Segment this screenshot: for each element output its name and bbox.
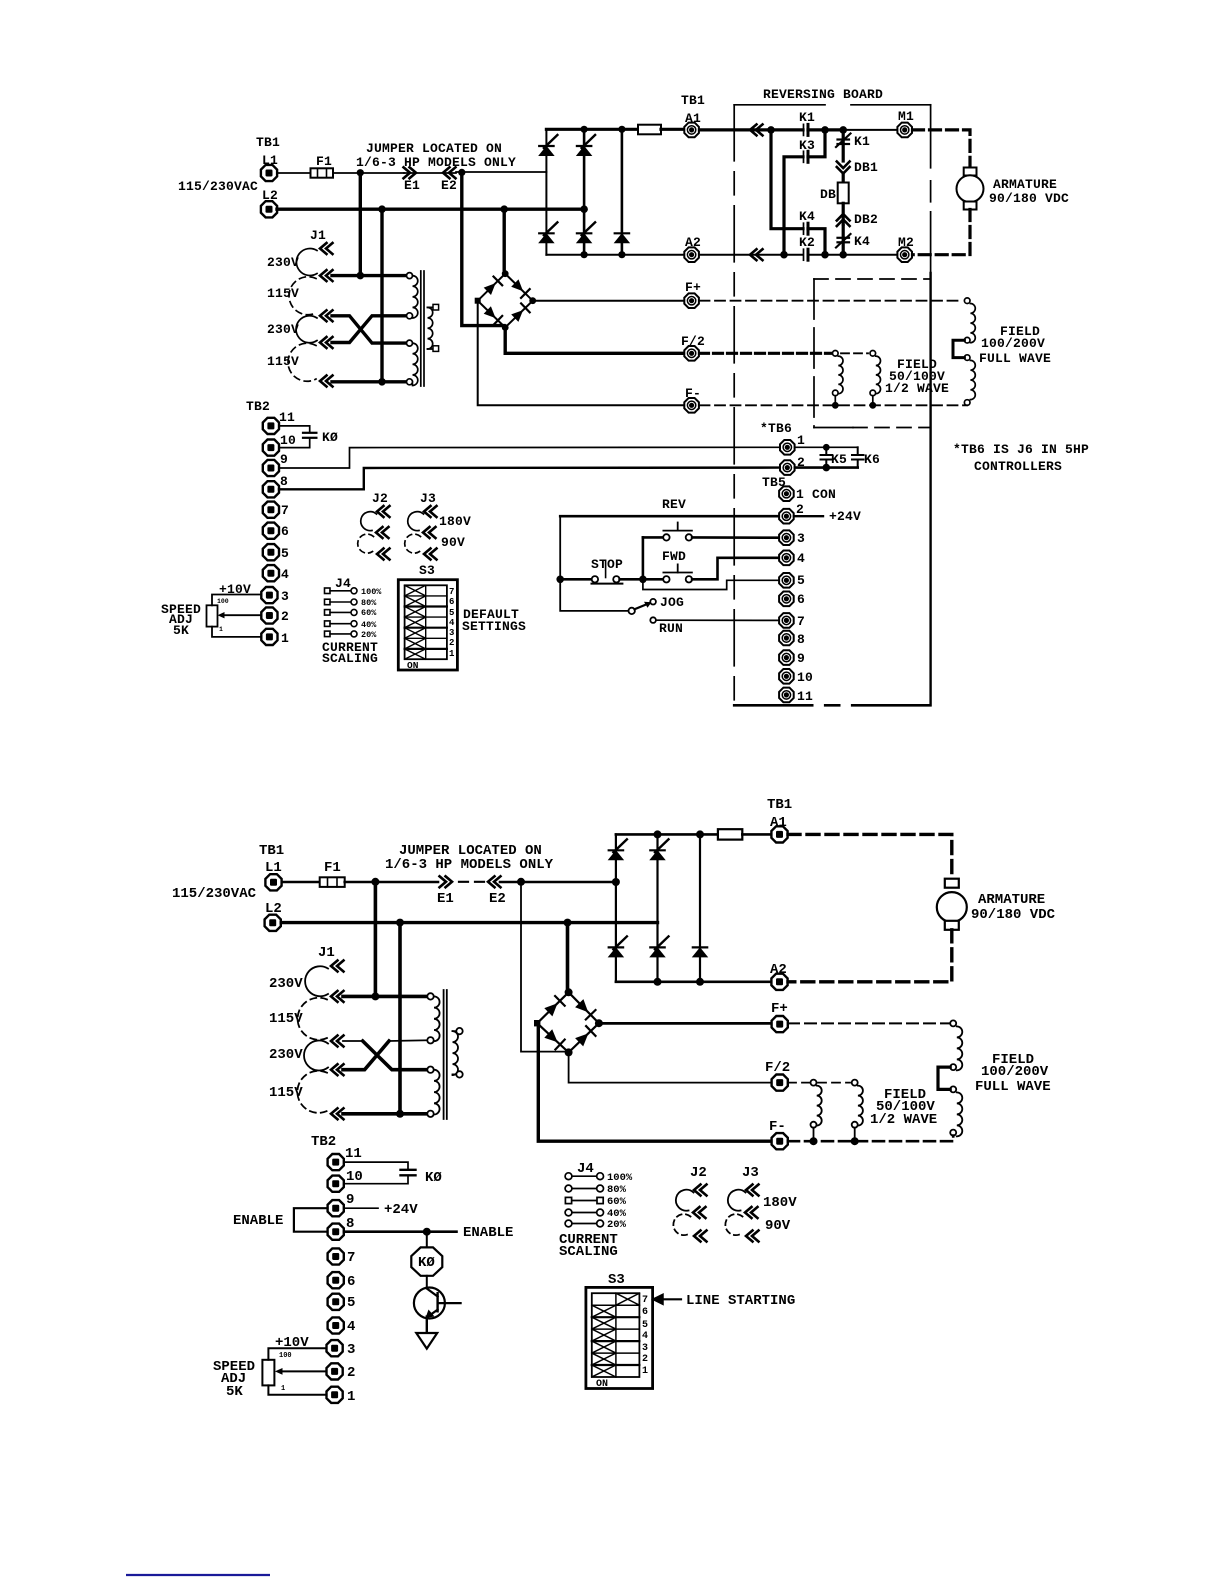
svg-text:115V: 115V bbox=[267, 286, 299, 301]
wire L2 junction down to field bridge top bbox=[503, 209, 506, 274]
svg-text:90/180 VDC: 90/180 VDC bbox=[971, 907, 1056, 923]
junction node on J1-5 wire bbox=[396, 1110, 404, 1118]
junction node K5 bottom bbox=[823, 464, 831, 472]
svg-text:JOG: JOG bbox=[660, 595, 684, 610]
wire F/2 dashed to 50/100V coils bbox=[788, 1082, 810, 1084]
field bridge diode lower-right bbox=[575, 1033, 588, 1046]
terminal TB2-7 bbox=[328, 1248, 344, 1264]
svg-text:ENABLE: ENABLE bbox=[233, 1213, 283, 1229]
svg-text:180V: 180V bbox=[439, 514, 471, 529]
svg-text:4: 4 bbox=[797, 551, 805, 566]
svg-text:80%: 80% bbox=[607, 1184, 627, 1196]
svg-text:E2: E2 bbox=[489, 891, 506, 907]
SCR bridge top bus bbox=[616, 833, 718, 836]
J1 arc 230V top bbox=[296, 249, 317, 276]
terminal TB2-11 bbox=[328, 1154, 344, 1170]
svg-text:TB2: TB2 bbox=[246, 399, 270, 414]
svg-text:FWD: FWD bbox=[662, 549, 686, 564]
wire pot bottom to TB2-1 bbox=[212, 627, 261, 637]
J1 arc 115V bottom (dashed) bbox=[288, 343, 316, 381]
svg-text:ENABLE: ENABLE bbox=[463, 1225, 513, 1241]
J1 arc 230V bottom bbox=[296, 316, 317, 343]
contact K5 bbox=[821, 447, 833, 467]
junction nodes on bridge bottom bus bbox=[581, 251, 588, 258]
junction node field bridge top bbox=[502, 270, 509, 277]
wire E2 junction down to field bridge bottom bbox=[521, 882, 567, 1052]
svg-text:8: 8 bbox=[797, 632, 805, 647]
svg-text:J2: J2 bbox=[372, 491, 388, 506]
J1 chevron 1 bbox=[331, 961, 344, 972]
fuse on A1 bus bbox=[638, 125, 661, 135]
svg-text:230V: 230V bbox=[269, 976, 303, 992]
field section dashed partition bbox=[814, 278, 931, 280]
field coil 100/200V full wave bbox=[964, 298, 975, 405]
J1 arc 230V top bbox=[305, 966, 328, 996]
svg-text:TB1: TB1 bbox=[256, 135, 280, 150]
junction node on L2 bus bbox=[396, 919, 404, 927]
svg-text:100/200V: 100/200V bbox=[981, 1064, 1049, 1080]
wire K0 to transistor bbox=[426, 1276, 428, 1289]
J1 chevron 4 bbox=[331, 1064, 344, 1075]
terminal TB5-7 bbox=[779, 613, 794, 628]
svg-text:5: 5 bbox=[449, 608, 454, 618]
transformer T1 core bbox=[443, 990, 445, 1119]
svg-text:6: 6 bbox=[449, 597, 454, 607]
SCR bridge top bus bbox=[546, 128, 638, 131]
svg-text:180V: 180V bbox=[763, 1195, 797, 1211]
svg-text:J3: J3 bbox=[742, 1165, 759, 1181]
motor armature bbox=[964, 168, 977, 176]
junction node A (771,130) bbox=[767, 126, 775, 134]
svg-text:1/6-3 HP MODELS ONLY: 1/6-3 HP MODELS ONLY bbox=[356, 155, 516, 170]
wire pot wiper to TB2-2 bbox=[282, 1370, 326, 1372]
svg-text:7: 7 bbox=[281, 503, 289, 518]
arrow LINE STARTING bbox=[653, 1294, 666, 1304]
J1 chevron 3 bbox=[331, 1036, 344, 1047]
transformer T1 primary winding bbox=[407, 273, 418, 386]
wire DB1 to DB resistor bbox=[842, 173, 845, 183]
junction nodes on M2 bus bbox=[780, 251, 788, 259]
junction node on L1 wire bbox=[371, 878, 379, 886]
svg-text:ARMATURE: ARMATURE bbox=[993, 177, 1057, 192]
svg-text:5K: 5K bbox=[226, 1384, 243, 1400]
svg-text:115/230VAC: 115/230VAC bbox=[178, 179, 258, 194]
SCR bridge right leg bbox=[699, 834, 701, 981]
SCR bottom-left bbox=[539, 222, 557, 243]
J1 chevron 1 bbox=[320, 243, 333, 254]
svg-text:+24V: +24V bbox=[384, 1202, 418, 1218]
wire ENABLE from TB2-8 bbox=[344, 1230, 457, 1233]
contact K4 (NC, DB branch) bbox=[842, 226, 845, 255]
wire field bridge left to F- bbox=[537, 1023, 771, 1141]
wire J1-3 crossover to primary mid2 bbox=[343, 1040, 363, 1042]
switch FWD bbox=[643, 578, 663, 581]
terminal TB2-1 bbox=[261, 629, 277, 645]
svg-text:3: 3 bbox=[281, 589, 289, 604]
svg-text:1 CON: 1 CON bbox=[796, 487, 836, 502]
svg-text:6: 6 bbox=[797, 592, 805, 607]
wire E2 to bridge left leg bbox=[500, 881, 616, 884]
jumper E2 bbox=[488, 876, 501, 887]
wire L1 to F1 bbox=[282, 881, 320, 884]
svg-text:5: 5 bbox=[797, 573, 805, 588]
svg-text:5: 5 bbox=[347, 1295, 355, 1311]
svg-text:5K: 5K bbox=[173, 623, 189, 638]
junction node B (825,130) bbox=[821, 126, 829, 134]
svg-text:2: 2 bbox=[449, 638, 454, 648]
svg-text:10: 10 bbox=[280, 433, 296, 448]
wire field bridge bottom to F/2 bbox=[569, 1052, 771, 1082]
svg-text:60%: 60% bbox=[607, 1196, 627, 1208]
wire pot top to TB2-3 bbox=[212, 595, 261, 606]
svg-text:K4: K4 bbox=[854, 234, 870, 249]
svg-text:1: 1 bbox=[281, 631, 289, 646]
junction node E2 wire to left leg bbox=[612, 878, 620, 886]
J1 chevron 4 bbox=[320, 337, 333, 348]
terminal TB5-8 bbox=[779, 631, 794, 646]
chevron on A1 line bbox=[750, 124, 763, 135]
J1 arc 115V top (dashed) bbox=[289, 277, 316, 315]
SCR bottom-mid bbox=[650, 936, 668, 957]
dashed link between 50/100V coils bbox=[841, 352, 868, 354]
field coil 50/100V half wave (right) bbox=[852, 1080, 863, 1142]
wire junction up to REV bbox=[642, 537, 645, 579]
wire A1 to board (chevron) bbox=[700, 128, 771, 131]
svg-text:1/2 WAVE: 1/2 WAVE bbox=[870, 1112, 937, 1128]
relay coil K0 bbox=[426, 1232, 428, 1247]
wire RUN to TB5-7 bbox=[656, 619, 779, 621]
wire M1 to armature (dashed) bbox=[913, 130, 971, 168]
svg-text:FULL WAVE: FULL WAVE bbox=[979, 351, 1051, 366]
svg-text:S3: S3 bbox=[419, 563, 435, 578]
svg-text:1: 1 bbox=[347, 1389, 355, 1405]
svg-text:9: 9 bbox=[280, 452, 288, 467]
junction node field bridge top bbox=[565, 988, 573, 996]
terminal TB2-8 bbox=[328, 1224, 344, 1240]
J1 arc 115V bottom (dashed) bbox=[297, 1071, 327, 1113]
svg-text:E1: E1 bbox=[404, 178, 420, 193]
svg-text:ON: ON bbox=[596, 1379, 608, 1390]
ground bbox=[416, 1333, 437, 1349]
svg-text:80%: 80% bbox=[361, 598, 377, 608]
svg-text:6: 6 bbox=[642, 1307, 648, 1318]
svg-text:100/200V: 100/200V bbox=[981, 336, 1045, 351]
svg-text:4: 4 bbox=[281, 567, 289, 582]
SCR bridge left leg bbox=[615, 834, 617, 981]
terminal TB2-6 bbox=[263, 523, 279, 539]
junction node coil right on F- bbox=[851, 1137, 859, 1145]
svg-text:115V: 115V bbox=[269, 1011, 303, 1027]
svg-text:F+: F+ bbox=[771, 1001, 788, 1017]
wire F1 to E1 bbox=[333, 172, 404, 174]
svg-text:1: 1 bbox=[642, 1366, 648, 1377]
junction node field bridge left bbox=[475, 298, 481, 304]
svg-text:1: 1 bbox=[281, 1385, 285, 1393]
motor armature bbox=[945, 879, 959, 888]
svg-text:11: 11 bbox=[345, 1146, 362, 1162]
junction node K5 top bbox=[823, 444, 830, 451]
svg-text:TB1: TB1 bbox=[681, 93, 705, 108]
terminal TB2-5 bbox=[328, 1294, 344, 1310]
svg-text:4: 4 bbox=[642, 1331, 648, 1342]
svg-text:K6: K6 bbox=[864, 452, 880, 467]
svg-text:3: 3 bbox=[347, 1342, 355, 1358]
junction node L2 bus to mid leg bbox=[580, 205, 588, 213]
svg-text:7: 7 bbox=[347, 1250, 355, 1266]
svg-text:J4: J4 bbox=[335, 576, 351, 591]
wire A1 to armature (dashed) bbox=[788, 834, 952, 878]
terminal TB5-6 bbox=[779, 592, 794, 607]
wire fuse to A1 bbox=[742, 833, 771, 836]
wire L2 junction down to field bridge top bbox=[566, 923, 570, 993]
field coil 50/100V half wave (right) bbox=[870, 351, 881, 406]
field bridge diamond bbox=[478, 274, 533, 328]
svg-text:J3: J3 bbox=[420, 491, 436, 506]
transformer T1 secondary winding bbox=[453, 1028, 463, 1078]
jumper E1 bbox=[440, 876, 453, 887]
SCR bottom-left bbox=[609, 936, 627, 957]
wire L2 bus bbox=[281, 921, 657, 924]
svg-text:J4: J4 bbox=[577, 1161, 594, 1177]
svg-text:90/180 VDC: 90/180 VDC bbox=[989, 191, 1069, 206]
svg-text:115V: 115V bbox=[269, 1085, 303, 1101]
svg-text:TB2: TB2 bbox=[311, 1134, 336, 1150]
svg-text:RUN: RUN bbox=[659, 621, 683, 636]
wire armature to A2 (dashed) bbox=[788, 930, 952, 982]
wire FWD to TB5-4 bbox=[692, 558, 778, 580]
svg-text:ON: ON bbox=[407, 660, 419, 671]
SCR bridge left leg bbox=[545, 129, 547, 254]
svg-text:1: 1 bbox=[797, 433, 805, 448]
field bridge diode upper-right bbox=[575, 999, 588, 1012]
junction node coil left on F- bbox=[832, 402, 839, 409]
wire F- dashed to field coil bottom bbox=[700, 404, 968, 406]
diode DB1 (double chevron down) bbox=[837, 162, 850, 174]
terminal TB5-4 bbox=[779, 551, 794, 566]
jumper E2 bbox=[443, 167, 456, 178]
terminal TB5-10 bbox=[779, 669, 794, 684]
junction node field bridge bottom bbox=[502, 324, 509, 331]
capacitor K0 (TB2) bbox=[279, 426, 310, 432]
switch REV bbox=[643, 536, 663, 539]
junction node at E2 bbox=[517, 878, 525, 886]
diode bottom-right bbox=[615, 233, 629, 243]
svg-text:5: 5 bbox=[281, 546, 289, 561]
junction node coil left on F- bbox=[810, 1137, 818, 1145]
terminal TB2-9 bbox=[328, 1200, 344, 1216]
svg-text:REVERSING BOARD: REVERSING BOARD bbox=[763, 87, 883, 102]
field bridge diode lower-left bbox=[484, 306, 496, 318]
svg-text:5: 5 bbox=[642, 1320, 648, 1331]
wire F+ dashed to field coil bbox=[700, 300, 964, 302]
junction nodes on bridge bottom bus bbox=[654, 978, 662, 986]
svg-text:J1: J1 bbox=[310, 228, 326, 243]
svg-text:J2: J2 bbox=[690, 1165, 707, 1181]
field bridge diamond bbox=[537, 992, 599, 1052]
wire L1 junction down to transformer bbox=[359, 173, 362, 276]
svg-text:100%: 100% bbox=[607, 1172, 633, 1184]
terminal TB2-8 bbox=[263, 481, 279, 497]
terminal TB2-6 bbox=[328, 1272, 344, 1288]
wire L2 junction down to transformer bbox=[380, 209, 383, 382]
diode DB2 (double chevron up) bbox=[837, 214, 850, 226]
terminal TB5-11 bbox=[779, 688, 794, 703]
svg-text:3: 3 bbox=[797, 531, 805, 546]
SCR bridge mid leg bbox=[656, 834, 658, 981]
svg-text:F1: F1 bbox=[316, 154, 332, 169]
junction node field bridge left bbox=[534, 1020, 540, 1026]
svg-text:11: 11 bbox=[279, 410, 295, 425]
junction node field bridge bottom bbox=[565, 1048, 573, 1056]
jumper E1 bbox=[404, 167, 417, 178]
SCR bridge bottom bus bbox=[546, 254, 683, 256]
junction nodes on bridge top bus bbox=[581, 126, 588, 133]
svg-text:*TB6 IS J6 IN 5HP: *TB6 IS J6 IN 5HP bbox=[953, 442, 1089, 457]
svg-text:ARMATURE: ARMATURE bbox=[978, 892, 1045, 908]
terminal TB2-2 bbox=[327, 1363, 343, 1379]
terminal TB5-2 bbox=[779, 509, 794, 524]
junction node on L2 bus bbox=[378, 205, 386, 213]
contact K1 (NC, DB branch) bbox=[842, 130, 845, 161]
wire pot bottom to TB2-1 bbox=[268, 1385, 326, 1394]
terminal TB2-5 bbox=[263, 544, 279, 560]
svg-text:2: 2 bbox=[347, 1365, 355, 1381]
wire DB resistor to DB2 bbox=[842, 203, 845, 224]
field bridge diode upper-left bbox=[484, 283, 496, 295]
junction nodes on bridge top bus bbox=[654, 830, 662, 838]
J1 chevron 5 bbox=[320, 376, 333, 387]
svg-text:10: 10 bbox=[797, 670, 813, 685]
fuse on A1 bus bbox=[718, 829, 742, 839]
svg-text:7: 7 bbox=[797, 614, 805, 629]
field coil tap bracket bbox=[953, 340, 964, 357]
junction node on J1-5 wire bbox=[378, 378, 386, 386]
svg-text:8: 8 bbox=[346, 1216, 354, 1232]
wire E2 down to field bridge bbox=[462, 172, 504, 325]
svg-text:230V: 230V bbox=[267, 322, 299, 337]
field bridge diode lower-right bbox=[511, 310, 523, 322]
reversing board outline bbox=[734, 105, 930, 706]
svg-text:DB: DB bbox=[820, 187, 836, 202]
terminal TB2-11 bbox=[263, 418, 279, 434]
svg-text:20%: 20% bbox=[361, 630, 377, 640]
wire L2 bus bbox=[277, 207, 584, 210]
SCR bridge bottom bus bbox=[616, 980, 771, 983]
svg-text:+24V: +24V bbox=[829, 509, 861, 524]
svg-text:4: 4 bbox=[347, 1319, 355, 1335]
contact K6 bbox=[852, 447, 864, 467]
svg-text:3: 3 bbox=[642, 1343, 648, 1354]
svg-text:K5: K5 bbox=[831, 452, 847, 467]
field coil 50/100V half wave (left) bbox=[811, 1080, 822, 1142]
svg-text:1: 1 bbox=[219, 626, 223, 633]
svg-text:K1: K1 bbox=[799, 110, 815, 125]
terminal TB2-7 bbox=[263, 502, 279, 518]
wire L1 to F1 bbox=[277, 172, 310, 174]
svg-text:230V: 230V bbox=[267, 255, 299, 270]
capacitor K0 (TB2) bbox=[344, 1162, 408, 1169]
SCR top-left bbox=[609, 839, 627, 860]
svg-text:E1: E1 bbox=[437, 891, 454, 907]
junction node coil right on F- bbox=[869, 402, 876, 409]
svg-text:FULL WAVE: FULL WAVE bbox=[975, 1079, 1051, 1095]
wire REV to TB5-3 bbox=[692, 536, 778, 539]
footer rule bbox=[126, 1574, 270, 1576]
J1 chevron 5 bbox=[331, 1108, 344, 1119]
svg-text:TB1: TB1 bbox=[259, 843, 284, 859]
junction node on J1-2 wire bbox=[357, 272, 365, 280]
SCR bridge right leg bbox=[621, 129, 624, 254]
svg-text:SCALING: SCALING bbox=[322, 651, 378, 666]
svg-text:90V: 90V bbox=[765, 1218, 791, 1234]
terminal TB2-9 bbox=[263, 460, 279, 476]
SCR top-mid bbox=[650, 839, 668, 860]
J1 chevron 2 bbox=[331, 991, 344, 1002]
transformer T1 secondary winding bbox=[428, 304, 439, 351]
svg-text:S3: S3 bbox=[608, 1272, 625, 1288]
wire field bridge bottom to F/2 bbox=[505, 328, 683, 354]
svg-text:K1: K1 bbox=[854, 134, 870, 149]
svg-text:230V: 230V bbox=[269, 1047, 303, 1063]
svg-text:DB1: DB1 bbox=[854, 160, 878, 175]
svg-text:7: 7 bbox=[449, 587, 454, 597]
wire F1 to E1 bbox=[345, 881, 438, 884]
wire L1 junction down to transformer bbox=[374, 882, 378, 997]
terminal TB5-1 bbox=[779, 486, 794, 501]
svg-text:20%: 20% bbox=[607, 1219, 627, 1231]
terminal TB6-2 bbox=[780, 460, 795, 475]
field bridge diode lower-left bbox=[544, 1029, 557, 1042]
svg-text:SETTINGS: SETTINGS bbox=[462, 619, 526, 634]
svg-text:7: 7 bbox=[642, 1295, 648, 1306]
wire fuse to A1 bbox=[661, 128, 684, 131]
svg-text:60%: 60% bbox=[361, 608, 377, 618]
wire pot wiper to TB2-2 bbox=[224, 614, 261, 616]
wire E1 to E2 bbox=[404, 172, 456, 174]
wire junction to TB5-5 (under-route) bbox=[643, 579, 779, 589]
wire L2 junction down to transformer bbox=[398, 923, 402, 1114]
svg-text:KØ: KØ bbox=[425, 1170, 442, 1186]
junction node at E2 bbox=[458, 169, 465, 176]
terminal TB5-9 bbox=[779, 650, 794, 665]
wire pot top to TB2-3 bbox=[268, 1348, 326, 1360]
terminal TB2-2 bbox=[261, 607, 277, 623]
wire J1-4 crossover to primary mid1 bbox=[332, 316, 408, 343]
svg-text:J1: J1 bbox=[318, 945, 335, 961]
J1 chevron 3 bbox=[320, 310, 333, 321]
terminal TB2-3 bbox=[327, 1340, 343, 1356]
junction node stop tee bbox=[556, 576, 564, 584]
svg-text:4: 4 bbox=[449, 618, 455, 628]
svg-text:6: 6 bbox=[347, 1274, 355, 1290]
svg-text:KØ: KØ bbox=[322, 430, 338, 445]
field bridge diode upper-left bbox=[544, 1003, 557, 1016]
transformer T1 core bbox=[420, 271, 422, 386]
svg-text:10: 10 bbox=[346, 1169, 363, 1185]
terminal TB6-1 bbox=[780, 440, 795, 455]
dashed link between 50/100V coils bbox=[818, 1082, 850, 1084]
svg-text:1/6-3 HP MODELS ONLY: 1/6-3 HP MODELS ONLY bbox=[385, 857, 554, 873]
terminal TB2-3 bbox=[261, 587, 277, 603]
field coil tap bracket bbox=[938, 1067, 950, 1089]
junction node L2 to field bridge bbox=[500, 205, 508, 213]
wire field bridge right to F+ bbox=[599, 1022, 771, 1025]
junction node on L1 wire bbox=[357, 169, 364, 176]
svg-text:100%: 100% bbox=[361, 587, 382, 597]
svg-text:6: 6 bbox=[281, 524, 289, 539]
terminal TB2-4 bbox=[328, 1317, 344, 1333]
svg-text:115/230VAC: 115/230VAC bbox=[172, 886, 257, 902]
